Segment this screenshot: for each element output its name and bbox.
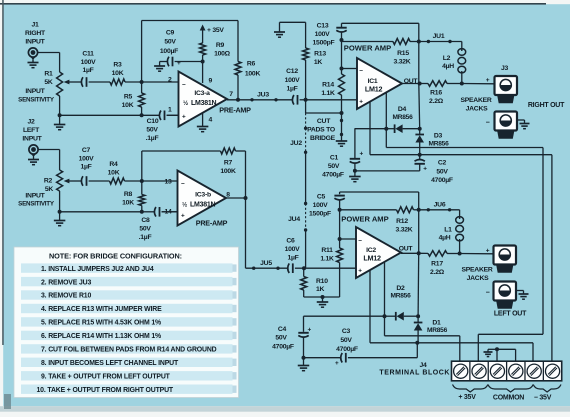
svg-text:3. REMOVE R10: 3. REMOVE R10 [41,293,91,300]
jumper JU2 dashed path [305,100,307,113]
svg-text:4. REPLACE R13 WITH JUMPER WIR: 4. REPLACE R13 WITH JUMPER WIRE [41,306,162,313]
svg-text:100V: 100V [81,59,97,66]
note row 8 [21,358,233,367]
svg-text:8. INPUT BECOMES LEFT CHANNEL: 8. INPUT BECOMES LEFT CHANNEL INPUT [41,360,179,367]
svg-text:C9: C9 [166,30,175,37]
potentiometer R1 [57,72,63,96]
svg-text:INPUT: INPUT [25,39,45,46]
svg-text:R17: R17 [431,261,443,268]
svg-text:50V: 50V [146,127,158,134]
svg-text:RIGHT: RIGHT [25,30,46,37]
op-amp IC1 [357,58,402,109]
svg-text:100K: 100K [220,168,236,175]
svg-text:4700µF: 4700µF [336,346,358,353]
svg-text:9. TAKE + OUTPUT FROM LEFT OUT: 9. TAKE + OUTPUT FROM LEFT OUTPUT [41,373,171,380]
svg-text:R11: R11 [321,247,333,254]
svg-text:LM12: LM12 [363,254,381,263]
svg-text:C8: C8 [141,217,150,224]
IC1 OUT vertical wire [418,42,420,84]
capacitor C3 [304,357,341,359]
wire D2 node to terminal cell 1 [384,316,386,336]
page left edge line [2,0,4,345]
capacitor C7 [81,176,83,186]
svg-text:7. CUT FOIL BETWEEN PADS FROM: 7. CUT FOIL BETWEEN PADS FROM R14 AND GR… [41,347,217,354]
svg-text:50V: 50V [328,163,340,170]
resistor R14 [341,40,343,74]
svg-text:OUT: OUT [399,245,414,252]
diode D2 [304,315,385,317]
resistor R5 [141,82,143,93]
svg-text:10K: 10K [122,199,134,206]
wire C3 right up to -35V node [416,343,418,358]
svg-text:10K: 10K [122,102,134,109]
ground below cut pads [336,140,348,142]
resistor R9 [202,55,204,62]
svg-text:50V: 50V [275,335,287,342]
wire to left speaker jack [460,253,494,255]
svg-text:TERMINAL BLOCK: TERMINAL BLOCK [379,370,450,377]
svg-text:1.1K: 1.1K [320,256,334,263]
svg-text:1K: 1K [316,286,325,293]
capacitor C5 [339,192,341,194]
node L1 bottom on output [458,252,462,256]
svg-text:100µF: 100µF [160,48,178,55]
ground below J1 [28,62,39,64]
capacitor C8 [142,211,155,213]
svg-text:R6: R6 [247,61,256,68]
IC2 output wire [401,252,419,254]
capacitor C12 [276,99,292,101]
wire to IC1 + input [306,99,357,101]
svg-text:+: + [181,212,185,219]
jumper JU1 [419,41,462,43]
svg-text:+: + [486,77,490,84]
svg-text:R2: R2 [44,178,53,185]
svg-text:IC3-b: IC3-b [195,192,211,199]
svg-text:13: 13 [164,178,172,185]
capacitor C2 [419,155,421,160]
svg-text:50V: 50V [436,168,448,175]
svg-text:R13: R13 [314,51,326,58]
svg-text:R8: R8 [124,191,133,198]
svg-text:J4: J4 [419,362,427,369]
page top border line [0,3,546,5]
svg-text:1: 1 [168,106,172,113]
svg-text:JU1: JU1 [433,33,445,40]
jumper JU3 [250,98,253,101]
resistor R10 [302,266,306,270]
svg-text:1µF: 1µF [286,85,297,92]
jack J2 [29,145,38,154]
node D2/D1 [416,314,420,318]
svg-text:100Ω: 100Ω [214,51,231,58]
preamp feedback rail wire [141,21,143,83]
svg-text:5K: 5K [45,186,54,193]
IC1 - input wire [340,67,344,71]
svg-text:½: ½ [183,100,188,107]
IC1 top rail wire [342,22,419,24]
node L2 bottom on output [460,82,464,86]
svg-text:LEFT OUT: LEFT OUT [494,310,527,317]
svg-text:+: + [177,60,181,67]
svg-text:+: + [359,99,363,106]
IC1 V- pin wire to -35V line [369,102,371,155]
svg-text:4µH: 4µH [442,63,454,70]
svg-text:100V: 100V [285,77,301,84]
pin 14 wire [162,211,178,213]
capacitor C1 [354,129,356,159]
svg-text:R15: R15 [397,50,409,57]
svg-text:4700µF: 4700µF [272,343,294,350]
svg-text:J2: J2 [27,119,35,126]
wire to IC2 + input [304,267,356,269]
IC2 V- pin wire to -35V cell [369,270,371,343]
note row 1 [21,263,233,272]
ground below J2 [33,157,35,160]
IC2 - input wire [338,237,342,241]
svg-text:J3: J3 [501,65,509,72]
svg-text:LM12: LM12 [365,84,383,93]
svg-text:1µF: 1µF [82,67,93,74]
node C13 bottom [340,38,344,42]
svg-text:MR856: MR856 [427,327,448,334]
svg-text:R9: R9 [216,42,225,49]
svg-text:2. REMOVE JU3: 2. REMOVE JU3 [41,279,91,286]
svg-text:J1: J1 [31,22,39,29]
note row 6 [21,331,233,340]
svg-text:9: 9 [209,78,213,85]
ground for J3 minus jack [517,119,525,121]
speaker jack J3 minus [495,112,518,131]
wire preamp B output down to JU5 [245,198,247,268]
wire J2 to R2 [38,149,60,151]
svg-text:D4: D4 [398,106,407,113]
svg-text:1500pF: 1500pF [309,210,331,217]
svg-text:SENSITIVITY: SENSITIVITY [18,200,54,207]
svg-text:RIGHT OUT: RIGHT OUT [528,102,565,109]
ground at R2 bottom [59,212,61,221]
svg-text:8: 8 [226,191,230,198]
svg-text:D2: D2 [396,285,405,292]
svg-text:BRIDGE: BRIDGE [310,135,336,142]
svg-text:R10: R10 [316,278,328,285]
node D4/D3 at OUT vertical [418,127,422,131]
svg-text:R16: R16 [430,90,442,97]
svg-text:6. REPLACE R14 WITH 1.13K OHM: 6. REPLACE R14 WITH 1.13K OHM 1% [41,333,161,340]
svg-text:1µF: 1µF [80,164,91,171]
preamp B feedback rail wire [141,151,143,181]
svg-text:LM381N: LM381N [191,100,217,107]
svg-text:D3: D3 [434,133,443,140]
resistor R6 [235,62,241,76]
svg-text:PRE-AMP: PRE-AMP [196,218,228,227]
ground below C1 [354,171,356,177]
wire J1 to R1 [38,52,60,54]
note row 10 [21,385,233,394]
diode D4 [355,128,387,130]
svg-text:JU3: JU3 [257,91,269,98]
svg-text:INPUT: INPUT [25,88,45,95]
svg-text:NOTE: FOR BRIDGE CONFIGURATION: NOTE: FOR BRIDGE CONFIGURATION: [49,252,182,261]
svg-text:JU4: JU4 [288,216,300,223]
capacitor C10 [142,114,160,116]
note box [14,247,239,398]
IC1 output wire [402,83,420,85]
common ground node [495,347,499,351]
note row 2 [21,277,233,286]
svg-text:MR856: MR856 [390,293,411,300]
capacitor C6 [288,263,290,273]
svg-text:+: + [308,326,312,333]
diode D1 [417,316,419,322]
diode D3 [419,129,421,135]
svg-text:L1: L1 [444,227,452,234]
svg-text:SENSITIVITY: SENSITIVITY [18,96,54,103]
svg-text:JACKS: JACKS [466,106,489,113]
IC2 top rail wire [340,191,419,193]
svg-text:4700µF: 4700µF [431,177,453,184]
svg-text:R7: R7 [224,160,233,167]
svg-text:10. TAKE + OUTPUT FROM RIGHT: 10. TAKE + OUTPUT FROM RIGHT OUTPUT [37,387,174,394]
inductor L1 [459,210,461,217]
node C12 output / JU2 top [304,98,308,102]
svg-text:3.32K: 3.32K [396,227,413,234]
svg-text:3.32K: 3.32K [394,59,411,66]
svg-text:C7: C7 [82,147,91,154]
svg-text:5. REPLACE R15 WITH 4.53K OHM: 5. REPLACE R15 WITH 4.53K OHM 1% [41,320,161,327]
terminal screws [454,364,468,378]
+35V supply arrow [200,25,206,31]
resistor R11 [339,210,341,248]
op-amp IC3-a [179,72,228,127]
svg-text:7: 7 [229,91,233,98]
ground for C9 [154,65,165,67]
R2 wiper arrow [67,180,82,182]
resistor R12 feedback [340,209,397,211]
resistor R3 [110,79,125,85]
svg-text:−: − [182,82,186,89]
cut pads bracket wire [306,112,342,114]
note row 5 [21,317,233,326]
svg-text:+ 35V: + 35V [207,27,224,34]
node R4/R8 junction [140,179,144,183]
svg-text:CUT: CUT [317,118,331,125]
svg-text:INPUT: INPUT [25,192,45,199]
jumper JU6 [419,209,460,211]
svg-text:R4: R4 [109,161,118,168]
svg-text:2.2Ω: 2.2Ω [429,98,444,105]
resistor R17 [419,252,428,254]
note row 9 [21,371,233,380]
jack J1 [28,48,37,57]
wire R2 bottom to R8 bottom [58,210,62,214]
svg-text:C4: C4 [278,326,287,333]
svg-text:−: − [181,181,185,188]
node R15 right [417,40,421,44]
svg-text:4700µF: 4700µF [322,172,344,179]
svg-text:C6: C6 [286,238,295,245]
R1 wiper arrow [67,81,82,83]
terminal braces [453,385,488,393]
svg-text:INPUT: INPUT [22,136,42,143]
svg-text:L2: L2 [443,55,451,62]
op-amp IC2 [356,227,401,278]
svg-text:C1: C1 [330,155,339,162]
svg-text:1500pF: 1500pF [313,40,335,47]
speaker jack left minus [494,282,517,301]
resistor R8 [141,181,143,195]
note row 4 [21,304,233,313]
resistor R4 [110,178,125,184]
svg-text:C5: C5 [317,194,326,201]
svg-text:LM381N: LM381N [190,201,216,208]
svg-text:100K: 100K [245,71,261,78]
svg-text:2.2Ω: 2.2Ω [430,269,445,276]
svg-text:.1µF: .1µF [139,234,152,241]
pin 9 wire of IC3-a [202,62,204,84]
svg-text:1.1K: 1.1K [321,90,335,97]
svg-text:C11: C11 [82,51,94,58]
resistor R15 feedback [342,41,394,43]
pin 4 ground of IC3-a [202,114,204,127]
jumper JU4 dashed path [304,202,307,205]
svg-text:1µF: 1µF [287,255,298,262]
svg-text:½: ½ [182,201,187,208]
svg-text:100V: 100V [79,155,95,162]
svg-text:100V: 100V [285,246,301,253]
resistor R7 [221,148,236,154]
potentiometer R2 [57,170,63,191]
svg-text:+: + [335,360,339,367]
svg-text:−: − [359,68,363,75]
svg-text:COMMON: COMMON [493,395,524,402]
svg-text:C12: C12 [286,68,298,75]
pin 13 wire [142,180,178,182]
svg-text:+: + [358,268,362,275]
svg-text:− 35V: − 35V [534,394,552,401]
wire C2 bottom to C1 bottom [355,170,420,172]
svg-text:+: + [182,113,186,120]
svg-text:+: + [423,166,427,173]
svg-text:+: + [360,150,364,157]
resistor R13 [305,22,307,48]
svg-text:R1: R1 [44,71,53,78]
svg-text:POWER AMP: POWER AMP [344,44,391,53]
jumper JU5 [246,267,289,269]
note row 3 [21,290,233,299]
svg-text:.1µF: .1µF [146,135,159,142]
svg-text:JACKS: JACKS [467,275,490,282]
svg-text:50V: 50V [340,337,352,344]
svg-text:POWER AMP: POWER AMP [341,214,388,223]
capacitor C9 [160,61,168,63]
node C9/R9 [201,60,205,64]
svg-text:50V: 50V [164,39,176,46]
pin 2 wire [142,81,179,83]
svg-text:5K: 5K [44,79,53,86]
IC2 V+ pin wire [384,263,386,317]
ground at R1 bottom [59,115,61,124]
inductor L2 [461,42,463,50]
svg-text:−: − [486,120,490,127]
capacitor C4 [303,316,305,332]
svg-text:MR856: MR856 [392,114,413,121]
svg-text:4µH: 4µH [439,235,451,242]
svg-text:R3: R3 [113,62,122,69]
capacitor C13 [341,23,343,27]
resistor R16 [420,83,428,85]
ground for left minus jack [516,290,524,292]
svg-text:C2: C2 [438,160,447,167]
wire R1 bottom to R5 bottom [58,113,62,117]
cut pads below R14 [340,111,344,115]
wire JU2 to JU4 [305,152,307,203]
svg-text:1. INSTALL JUMPERS JU2 AND JU4: 1. INSTALL JUMPERS JU2 AND JU4 [41,266,154,273]
svg-text:−: − [358,238,362,245]
node C5 bottom [338,208,342,212]
svg-text:SPEAKER: SPEAKER [460,97,491,104]
ground for R13 [274,31,285,33]
svg-text:JU2: JU2 [290,140,302,147]
svg-text:C10: C10 [147,118,159,125]
svg-text:1K: 1K [314,59,323,66]
note row 7 [21,344,233,353]
node R12 right [417,208,421,212]
pin 1 wire [167,114,179,116]
shared ground wire R10/R11 [304,296,340,298]
svg-text:MR856: MR856 [428,141,449,148]
node R3/R5 junction [140,80,144,84]
svg-text:100V: 100V [313,202,329,209]
svg-text:−: − [486,290,490,297]
svg-text:R5: R5 [124,94,133,101]
svg-text:D1: D1 [432,319,441,326]
svg-text:+: + [486,247,490,254]
wire to right speaker jack [462,83,495,85]
ground below C4 [303,358,305,366]
speaker jack left plus [494,246,517,265]
svg-text:+ 35V: + 35V [458,394,476,401]
svg-text:JU6: JU6 [434,201,446,208]
svg-text:100V: 100V [315,31,331,38]
svg-text:R12: R12 [396,218,408,225]
svg-text:C3: C3 [342,328,351,335]
capacitor C11 [81,77,83,87]
svg-text:SPEAKER: SPEAKER [461,267,492,274]
svg-text:4: 4 [209,117,213,124]
svg-text:IC3-a: IC3-a [194,90,210,97]
op-amp IC3-b [178,171,227,226]
svg-text:R14: R14 [322,82,334,89]
svg-text:JU5: JU5 [260,260,272,267]
svg-text:C13: C13 [317,23,329,30]
svg-text:50V: 50V [139,225,151,232]
svg-text:PADS TO: PADS TO [307,127,335,134]
IC2 OUT vertical wire [418,210,420,254]
svg-text:PRE-AMP: PRE-AMP [219,105,251,114]
svg-text:LEFT: LEFT [23,127,40,134]
svg-text:10K: 10K [112,70,124,77]
IC1 V+ pin wire to +35V line [385,93,387,148]
svg-text:10K: 10K [108,170,120,177]
